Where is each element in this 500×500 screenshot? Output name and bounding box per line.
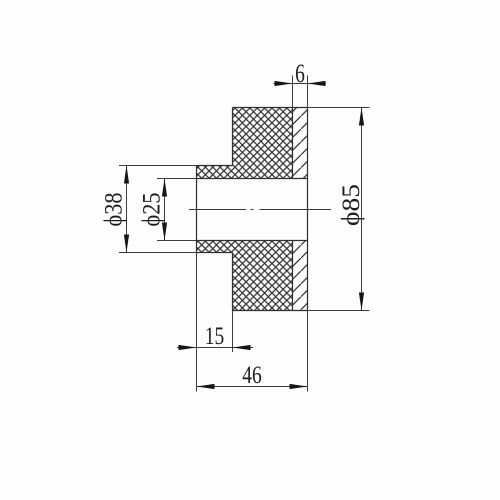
outline hub top edge (phi38)	[197, 165, 233, 167]
15 arrowhead pointing right	[179, 345, 197, 350]
svg-text:46: 46	[242, 361, 261, 389]
phi85 bottom extension line	[308, 310, 370, 312]
phi38 dimension line	[126, 166, 128, 253]
dimension phi25	[139, 179, 197, 241]
phi25 bottom extension line	[157, 240, 197, 242]
centerline left dash	[189, 209, 246, 211]
outline right face	[307, 108, 309, 311]
outline flange top edge (phi85)	[233, 107, 308, 109]
6 left extension line	[292, 76, 294, 108]
phi85 arrowhead down	[359, 293, 364, 311]
phi25 dimension line	[164, 179, 166, 241]
6 dimension line with outside tails	[274, 83, 327, 85]
diagonal-hatch fill, lower rim strip (6 mm disc)	[293, 241, 308, 311]
outline tire/rim joint lower	[292, 241, 294, 311]
cross-hatch fill, lower tire section	[197, 241, 293, 311]
dimension 6	[274, 59, 327, 107]
dimension 15	[177, 311, 253, 353]
phi38 arrowhead up	[124, 166, 129, 184]
outline tire/rim joint upper	[292, 108, 294, 179]
outline hub bottom edge (phi38)	[197, 252, 233, 254]
centerline center dot	[251, 209, 254, 211]
outline bore bottom line (phi25)	[197, 240, 308, 242]
phi25 arrowhead down	[162, 223, 167, 241]
dimension phi85	[308, 108, 370, 311]
phi38 bottom extension line	[119, 252, 197, 254]
dimension 46	[197, 253, 308, 392]
phi25 arrowhead up	[162, 179, 167, 197]
outline flange bottom edge (phi85)	[233, 310, 308, 312]
dimension phi38	[101, 166, 197, 253]
svg-text:ϕ25: ϕ25	[139, 193, 166, 227]
46 arrowhead pointing left	[197, 384, 215, 389]
phi38 arrowhead down	[124, 235, 129, 253]
phi85 top extension line	[308, 107, 370, 109]
46 right extension line	[307, 311, 309, 392]
outline flange left face upper	[232, 108, 234, 166]
phi38 top extension line	[119, 165, 197, 167]
46 left extension line	[196, 253, 198, 392]
6 arrowhead pointing right	[275, 81, 293, 86]
outline bore top line (phi25)	[197, 178, 308, 180]
15 dimension line with outside tails	[177, 347, 253, 349]
phi25 top extension line	[157, 178, 197, 180]
svg-text:6: 6	[295, 59, 305, 87]
centerline right dash	[260, 209, 332, 211]
46 dimension line	[197, 386, 308, 388]
15 arrowhead pointing left	[233, 345, 251, 350]
phi85 arrowhead up	[359, 108, 364, 126]
6 arrowhead pointing left	[308, 81, 326, 86]
diagonal-hatch fill, upper rim strip (6 mm disc)	[293, 108, 308, 179]
phi85 dimension line	[361, 108, 363, 311]
cross-hatch fill, upper tire section	[197, 108, 293, 179]
svg-text:15: 15	[205, 322, 224, 350]
outline hub left face	[196, 166, 198, 253]
6 right extension line	[307, 76, 309, 108]
svg-text:ϕ38: ϕ38	[101, 193, 128, 227]
svg-text:ϕ85: ϕ85	[338, 184, 365, 226]
46 arrowhead pointing right	[290, 384, 308, 389]
outline flange left face lower	[232, 253, 234, 311]
15 right extension line	[232, 311, 234, 353]
